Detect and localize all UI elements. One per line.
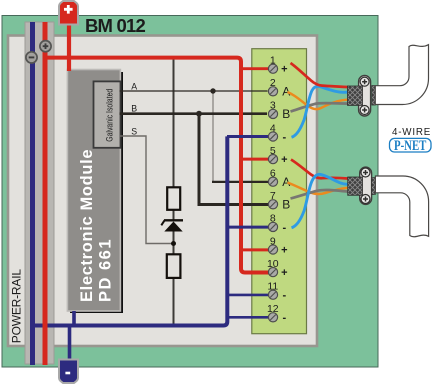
cable 2 braid stub right of plate xyxy=(372,178,376,195)
wire: branch B to terminal 7 xyxy=(199,114,269,205)
wire: blue terminal 4 to cable 1 xyxy=(292,86,350,137)
plus terminal box xyxy=(59,1,78,25)
gland 2 screw bottom xyxy=(361,195,370,204)
svg-text:11: 11 xyxy=(267,281,278,293)
cable 2 braid mesh xyxy=(348,177,363,195)
wire: minus box riser xyxy=(68,324,72,362)
terminal 11 xyxy=(267,281,286,302)
resistor R1 xyxy=(167,187,180,210)
wire: red branch terminal 9 xyxy=(241,248,269,251)
wire: red terminal 5 to cable 2 xyxy=(291,160,350,179)
wire: line B from module to terminal 3 xyxy=(120,112,268,115)
galvanic isolated box xyxy=(94,81,121,147)
svg-text:1: 1 xyxy=(270,55,276,67)
terminal block xyxy=(252,49,307,334)
wire: orange terminal 6 to cable 2 xyxy=(288,183,350,194)
gland 1 screw bottom xyxy=(360,106,369,115)
P-NET logo xyxy=(390,138,432,152)
svg-text:5: 5 xyxy=(270,145,276,157)
svg-text:POWER-RAIL: POWER-RAIL xyxy=(10,269,24,344)
svg-text:7: 7 xyxy=(270,190,276,202)
svg-text:A: A xyxy=(131,82,137,92)
svg-text:4: 4 xyxy=(270,122,276,134)
cable gland 2 plate xyxy=(360,167,372,204)
svg-text:12: 12 xyxy=(267,303,279,315)
rail plus bus (red vertical) xyxy=(43,22,48,365)
svg-text:B: B xyxy=(131,104,137,114)
wire: branch A vertical to terminal 6 xyxy=(212,91,214,182)
svg-text:+: + xyxy=(281,267,287,279)
resistor R2 xyxy=(167,254,181,278)
terminal 3 xyxy=(268,100,290,122)
svg-text:-: - xyxy=(282,290,286,302)
svg-text:9: 9 xyxy=(270,235,276,247)
zener diode D1 xyxy=(164,219,183,221)
svg-text:S: S xyxy=(131,126,137,136)
plus rail screw xyxy=(40,41,51,52)
wire: orange terminal 2 to cable 1 xyxy=(288,92,350,109)
svg-text:Galvanic Isolated: Galvanic Isolated xyxy=(103,88,114,141)
wire: line A from module to terminal 2 xyxy=(120,90,268,92)
svg-text:8: 8 xyxy=(270,213,276,225)
terminal 9 xyxy=(268,235,287,256)
svg-text:BM 012: BM 012 xyxy=(85,15,145,36)
svg-text:B: B xyxy=(282,198,290,212)
wire: red trunk from plus rail to terminal column xyxy=(43,58,269,273)
wire: navy branch terminal 8 xyxy=(227,226,269,229)
svg-text:PD 661: PD 661 xyxy=(96,238,114,302)
terminal 7 xyxy=(268,190,290,212)
wire: red terminal 1 to cable 1 xyxy=(291,63,350,87)
svg-text:-: - xyxy=(282,131,286,143)
wire: navy branch terminal 4 xyxy=(227,135,269,138)
svg-text:2: 2 xyxy=(270,77,276,89)
minus terminal box xyxy=(59,360,78,384)
cable 2 white tube xyxy=(375,176,428,237)
wire: navy trunk from minus rail up to terminal 4 xyxy=(31,136,228,325)
gland 1 screw top xyxy=(360,77,369,86)
mounting panel (green) xyxy=(2,16,378,368)
electronic module PD 661 body xyxy=(67,70,120,312)
wire: dropper chain from red trunk to navy trunk xyxy=(173,58,175,188)
svg-text:+: + xyxy=(281,154,287,166)
wire: module bottom to navy trunk xyxy=(72,311,76,326)
wire: red branch terminal 1 xyxy=(241,67,269,70)
node: junction on A xyxy=(210,88,215,93)
wire: navy branch terminal 11 xyxy=(227,294,269,297)
wire: gray terminal 3 to cable 1 xyxy=(291,103,350,111)
terminal screws and labels xyxy=(267,55,290,325)
cable 1 white tube xyxy=(375,45,428,105)
wire: plus box drop to module top xyxy=(67,22,71,71)
inner gray panel xyxy=(8,36,317,347)
svg-text:10: 10 xyxy=(267,258,279,270)
wire: line S from module to zener node xyxy=(120,136,172,244)
wire: gray terminal 7 to cable 2 xyxy=(291,190,350,199)
svg-text:6: 6 xyxy=(270,168,276,180)
svg-text:P-NET: P-NET xyxy=(394,136,427,153)
wire: branch A horizontal to terminal 6 xyxy=(212,181,269,183)
cable 1 braid stub right of plate xyxy=(372,86,376,106)
svg-text:+: + xyxy=(281,64,287,76)
terminal 1 xyxy=(268,55,287,76)
power rail band xyxy=(25,22,54,364)
svg-text:3: 3 xyxy=(270,100,276,112)
svg-text:-: - xyxy=(282,312,286,324)
svg-text:Electronic Module: Electronic Module xyxy=(78,149,96,302)
svg-text:B: B xyxy=(282,107,290,121)
node: junction on B xyxy=(196,111,202,117)
cable gland 1 plate xyxy=(359,76,371,117)
wire: navy branch terminal 12 xyxy=(227,316,269,319)
terminal 6 xyxy=(268,168,290,190)
wire: blue terminal 8 to cable 2 xyxy=(292,174,350,227)
rail minus bus (navy vertical) xyxy=(30,22,35,365)
terminal 4 xyxy=(268,122,286,143)
terminal 12 xyxy=(267,303,287,324)
wire: red branch terminal 5 xyxy=(241,158,269,161)
terminal 2 xyxy=(268,77,290,99)
electronic module shadow xyxy=(70,72,123,313)
gland 2 screw top xyxy=(361,168,370,177)
cable 1 braid mesh xyxy=(348,86,363,105)
minus rail screw xyxy=(26,52,37,63)
svg-text:+: + xyxy=(281,244,287,256)
terminal 8 xyxy=(268,213,286,234)
svg-text:-: - xyxy=(282,222,286,234)
terminal 5 xyxy=(268,145,287,166)
node: S junction xyxy=(171,241,176,246)
terminal 10 xyxy=(267,258,288,279)
